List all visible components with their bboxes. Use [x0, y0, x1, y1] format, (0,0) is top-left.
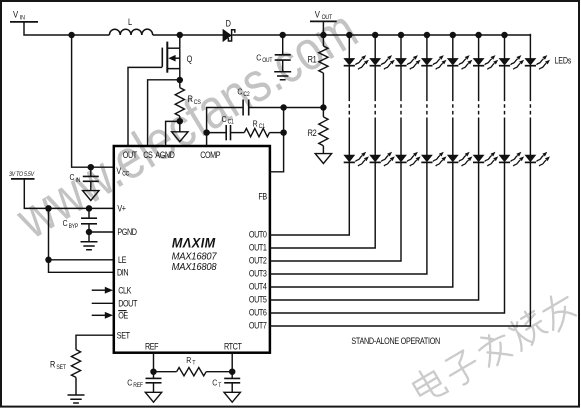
wire diode to LED bus [232, 34, 530, 36]
svg-text:CLK: CLK [118, 286, 132, 296]
LED D5a [447, 55, 472, 69]
resistor RC1 [231, 119, 284, 137]
wire DOUT output [92, 302, 114, 304]
svg-text:T: T [192, 360, 196, 367]
wire string 2 middle [374, 66, 376, 98]
svg-text:C1: C1 [259, 124, 265, 131]
wire COMP to CC1 [207, 132, 226, 134]
wire string 7 middle [504, 66, 506, 98]
svg-text:R: R [50, 360, 55, 370]
inductor L [109, 18, 152, 35]
LED D6b [473, 152, 498, 166]
svg-text:MΛXIM: MΛXIM [172, 235, 216, 251]
node LED string 5 top [450, 32, 457, 39]
resistor R1 [308, 35, 328, 108]
junction CBYP / PGND [86, 229, 93, 236]
wire string 6 lower [478, 118, 480, 156]
ground at CREF [145, 392, 161, 402]
LED D8b [525, 152, 550, 166]
wire VIN to rail [24, 22, 109, 35]
svg-text:CC: CC [122, 171, 129, 178]
svg-text:CS: CS [143, 151, 152, 161]
svg-text:OUT3: OUT3 [249, 269, 267, 279]
wire Q gate to OUT pin [128, 67, 162, 146]
wire string 1 to OUT0 [270, 162, 349, 235]
svg-text:PGND: PGND [117, 227, 137, 237]
wire REF pin [153, 353, 155, 372]
wire SET to RSET [76, 335, 114, 349]
node LED string 2 top [372, 32, 379, 39]
wire FB net [270, 108, 284, 172]
svg-text:REF: REF [145, 342, 159, 352]
junction drain node [177, 32, 184, 39]
junction VIN/VCC branch [68, 32, 75, 39]
wire string 4 to OUT3 [270, 162, 427, 274]
wire string 8 lower [529, 118, 531, 156]
wire string 1 middle [348, 66, 350, 98]
LED D6a [473, 55, 498, 69]
svg-text:LE: LE [118, 255, 127, 265]
wire string 3 to OUT2 [270, 162, 401, 261]
svg-text:OUT: OUT [322, 15, 333, 22]
junction LE tap [45, 257, 52, 264]
wire VIN branch to VCC pin [72, 35, 114, 167]
svg-text:IN: IN [20, 15, 25, 22]
LED D2a [370, 55, 395, 69]
svg-text:MAX16808: MAX16808 [172, 262, 217, 274]
svg-text:C: C [222, 114, 227, 124]
capacitor COUT [256, 35, 291, 72]
wire string 2 upper [374, 35, 376, 59]
ground at COUT [274, 72, 291, 80]
svg-text:COMP: COMP [200, 151, 220, 161]
svg-text:OE: OE [118, 311, 129, 321]
svg-text:V: V [13, 9, 18, 20]
svg-text:T: T [218, 383, 222, 390]
svg-text:RTCT: RTCT [224, 342, 242, 352]
junction R1/R2 node [320, 104, 327, 111]
wire string 4 middle [426, 66, 428, 98]
junction REF node [150, 368, 157, 375]
wire CLK input arrow [92, 287, 113, 294]
capacitor CREF [127, 372, 161, 393]
wire string 2 dashed [374, 98, 376, 118]
resistor RT [154, 355, 233, 376]
junction RTCT node [229, 368, 236, 375]
wire string 3 middle [400, 66, 402, 98]
wire string 4 upper [426, 35, 428, 59]
LED D5b [447, 152, 472, 166]
wire string 8 middle [529, 66, 531, 98]
wire string 7 upper [504, 35, 506, 59]
capacitor CC1 [222, 114, 234, 140]
svg-text:R: R [253, 119, 258, 129]
junction RC1/FB node [280, 129, 287, 136]
wire string 4 lower [426, 118, 428, 156]
wire string 5 upper [452, 35, 454, 59]
wire string 2 to OUT1 [270, 162, 375, 248]
capacitor CC2 [237, 87, 249, 116]
wire string 7 lower [504, 118, 506, 156]
wire rail to Q drain [179, 35, 181, 48]
svg-text:REF: REF [133, 383, 143, 390]
svg-text:V: V [116, 166, 121, 176]
wire string 3 lower [400, 118, 402, 156]
LED D4a [421, 55, 446, 69]
svg-text:SET: SET [56, 365, 66, 372]
transistor Q [162, 42, 192, 80]
svg-text:CS: CS [194, 99, 201, 106]
svg-text:STAND-ALONE OPERATION: STAND-ALONE OPERATION [351, 336, 440, 346]
wire string 3 dashed [400, 98, 402, 118]
wire string 5 lower [452, 118, 454, 156]
svg-text:Q: Q [187, 54, 193, 64]
node LED string 4 top [424, 32, 431, 39]
LED D4b [421, 152, 446, 166]
svg-text:LEDs: LEDs [555, 56, 572, 66]
wire string 3 upper [400, 35, 402, 59]
svg-text:OUT5: OUT5 [249, 295, 267, 305]
svg-text:FB: FB [258, 192, 266, 202]
IC U1 MAX16807/MAX16808 body [114, 146, 270, 353]
wire RTCT pin [231, 353, 233, 372]
svg-text:C1: C1 [228, 119, 234, 126]
svg-text:L: L [128, 18, 132, 28]
svg-text:DIN: DIN [117, 268, 129, 278]
LED D2b [370, 152, 395, 166]
wire 3V rail to V+ pin [24, 179, 114, 209]
wire string 5 dashed [452, 98, 454, 118]
wire COMP riser [207, 108, 243, 147]
wire string 1 lower [348, 118, 350, 156]
svg-text:D: D [226, 19, 231, 29]
svg-text:www.elecfans.com: www.elecfans.com [5, 0, 368, 251]
svg-text:C: C [237, 87, 242, 97]
svg-text:R2: R2 [308, 128, 318, 138]
junction CC2 node [280, 104, 287, 111]
ground at R2 [315, 154, 331, 164]
resistor RCS [175, 80, 201, 121]
wire string 6 upper [478, 35, 480, 59]
svg-text:DOUT: DOUT [118, 299, 137, 309]
svg-text:C2: C2 [243, 92, 249, 99]
svg-text:R1: R1 [308, 55, 318, 65]
wire string 5 middle [452, 66, 454, 98]
resistor R2 [308, 108, 328, 154]
svg-text:C: C [212, 378, 217, 388]
junction VOUT/R1 node [320, 32, 327, 39]
junction CIN tap [88, 164, 95, 171]
node LED string 3 top [398, 32, 405, 39]
node LED string 1 top [346, 32, 353, 39]
LED D3b [395, 152, 420, 166]
LED D1a [344, 55, 369, 69]
ground at PGND [81, 232, 98, 250]
wire CC2 to R1/R2 node [249, 107, 324, 109]
svg-text:R: R [186, 355, 191, 365]
capacitor CIN [70, 167, 99, 190]
svg-text:C: C [127, 378, 132, 388]
junction Q source / RCS [177, 77, 184, 84]
node 3V TO 5.5V terminal [9, 172, 35, 179]
wire string 2 lower [374, 118, 376, 156]
LED D3a [395, 55, 420, 69]
svg-text:OUT4: OUT4 [249, 282, 267, 292]
svg-text:V+: V+ [117, 204, 126, 214]
ground at CT [224, 392, 240, 402]
svg-text:C: C [63, 219, 68, 229]
capacitor CBYP [63, 208, 97, 232]
junction CBYP tap [86, 205, 93, 212]
svg-text:OUT6: OUT6 [249, 308, 267, 318]
svg-text:3V TO 5.5V: 3V TO 5.5V [9, 172, 35, 179]
svg-text:AGND: AGND [155, 151, 175, 161]
wire to PGND pin [89, 231, 114, 233]
svg-text:C: C [256, 53, 261, 63]
wire string 1 dashed [348, 98, 350, 118]
node LED string 6 top [475, 32, 482, 39]
svg-text:OUT2: OUT2 [249, 256, 267, 266]
wire string 7 dashed [504, 98, 506, 118]
wire L to diode [153, 34, 223, 36]
svg-text:OUT0: OUT0 [249, 230, 267, 240]
ground at RCS [172, 121, 188, 141]
wire string 6 dashed [478, 98, 480, 118]
junction LE/DIN branch [45, 205, 52, 212]
ground at CIN [83, 191, 99, 201]
wire string 7 to OUT6 [270, 162, 505, 313]
wire OE input arrow [92, 312, 113, 319]
LED D7b [499, 152, 524, 166]
wire string 8 upper [529, 35, 531, 59]
wire string 6 to OUT5 [270, 162, 479, 300]
junction RCS bottom / AGND [177, 118, 184, 125]
ground at RSET [68, 395, 85, 403]
svg-text:OUT1: OUT1 [249, 243, 267, 253]
svg-text:BYP: BYP [69, 223, 79, 230]
wire string 8 to OUT7 [270, 162, 530, 326]
resistor RSET [50, 350, 81, 395]
wire to LE pin [49, 259, 114, 261]
svg-text:OUT7: OUT7 [249, 321, 267, 331]
capacitor CT [212, 372, 240, 393]
LED D8a [525, 55, 550, 69]
wire string 8 dashed [529, 98, 531, 118]
wire string 6 middle [478, 66, 480, 98]
wire RCS to AGND pin [166, 121, 180, 146]
junction COMP node [203, 129, 210, 136]
svg-text:IN: IN [76, 177, 81, 184]
svg-text:OUT: OUT [123, 151, 137, 161]
LED D1b [344, 152, 369, 166]
diode D [223, 19, 235, 41]
svg-text:SET: SET [117, 331, 130, 341]
node LED string 7 top [501, 32, 508, 39]
node VIN terminal [10, 9, 38, 22]
node LED string 8 top [529, 34, 531, 36]
svg-text:OUT: OUT [262, 58, 273, 65]
svg-text:V: V [315, 9, 320, 20]
wire rail branch to LE/DIN [49, 208, 114, 272]
wire string 5 to OUT4 [270, 162, 453, 287]
junction COUT tap [279, 32, 286, 39]
LED D7a [499, 55, 524, 69]
svg-text:R: R [188, 95, 193, 105]
wire string 4 dashed [426, 98, 428, 118]
wire source to CS pin [148, 80, 180, 146]
svg-text:C: C [70, 173, 75, 183]
wire string 1 upper [348, 35, 350, 59]
node VOUT terminal [310, 9, 337, 35]
